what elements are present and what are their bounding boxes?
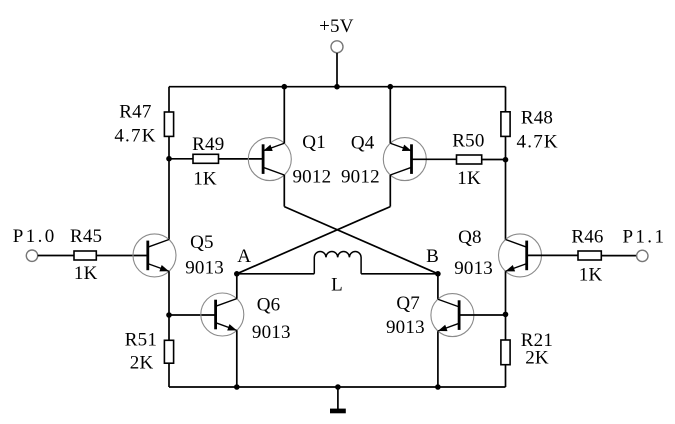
svg-text:9012: 9012 [341, 166, 380, 187]
svg-text:9013: 9013 [185, 258, 224, 279]
label 9012 of Q1 [292, 166, 331, 187]
label R21 [521, 330, 553, 351]
label 1K of R50 [457, 168, 481, 189]
wire node B to Q7 collector [437, 274, 439, 299]
node junction Q7 emitter / bottom bus [435, 384, 441, 390]
label Q1 [302, 132, 326, 153]
label P1.0 [13, 226, 57, 247]
svg-text:P1.0: P1.0 [13, 226, 57, 247]
wire R51 to bottom bus [168, 363, 170, 387]
wire R49 to Q1 base [219, 158, 264, 160]
transistor Q7 (NPN 9013) [431, 294, 474, 337]
transistor Q5 (NPN 9013) [133, 234, 176, 277]
wire inductor to node B [361, 273, 438, 275]
wire bottom bus [169, 386, 506, 388]
svg-text:R50: R50 [452, 131, 484, 152]
wire diagonal Q4 collector to node A [237, 207, 390, 274]
wire right rail upper [505, 87, 507, 112]
wire diagonal Q1 collector to node B [284, 207, 438, 274]
wire R46 to P1.1 [601, 255, 636, 257]
svg-text:9012: 9012 [292, 166, 331, 187]
svg-text:4.7K: 4.7K [114, 126, 156, 147]
node junction R48/R50 [503, 157, 509, 163]
svg-text:P1.1: P1.1 [622, 226, 666, 247]
resistor R48 [501, 112, 510, 137]
svg-text:+5V: +5V [319, 16, 354, 37]
wire Q1 collector stub [283, 175, 285, 207]
label 9013 of Q8 [454, 258, 493, 279]
transistor Q1 (PNP 9012) [248, 138, 291, 181]
wire left rail upper [168, 87, 170, 112]
label 2K of R51 [130, 353, 154, 374]
svg-text:Q6: Q6 [257, 294, 281, 315]
svg-text:Q8: Q8 [458, 227, 482, 248]
node junction ground / bottom bus [335, 384, 341, 390]
svg-text:1K: 1K [457, 168, 481, 189]
resistor R21 [501, 340, 510, 365]
resistor R50 [457, 155, 482, 164]
wire Q5 emitter rail down [168, 271, 170, 315]
svg-text:2K: 2K [525, 348, 549, 369]
label 9012 of Q4 [341, 166, 380, 187]
label L [331, 275, 343, 296]
label 9013 of Q6 [252, 322, 291, 343]
power terminal +5V [331, 41, 343, 53]
svg-text:Q7: Q7 [396, 293, 420, 314]
node junction Q5 emitter / Q6 base / R51 [166, 312, 172, 318]
ground [330, 387, 346, 413]
wire right rail to Q8 collector [505, 160, 507, 240]
wire Q1 emitter to top bus [283, 87, 285, 144]
label 9013 of Q7 [386, 317, 425, 338]
node junction top bus / +5V [334, 84, 340, 90]
label Q8 [458, 227, 482, 248]
node junction R47/R49 [166, 156, 172, 162]
transistor Q8 (NPN 9013) [499, 234, 542, 277]
label +5V [319, 16, 354, 37]
svg-text:R49: R49 [192, 134, 224, 155]
transistor Q4 (PNP 9012) [383, 138, 426, 181]
label node A [237, 246, 251, 267]
svg-text:9013: 9013 [386, 317, 425, 338]
svg-text:R46: R46 [571, 226, 603, 247]
label R47 [119, 101, 151, 122]
svg-text:A: A [237, 246, 251, 267]
label R50 [452, 131, 484, 152]
resistor R46 [578, 251, 601, 260]
label R48 [521, 108, 553, 129]
svg-text:B: B [426, 246, 439, 267]
node junction top bus / Q4 emitter [388, 84, 394, 90]
svg-text:L: L [331, 275, 343, 296]
svg-text:1K: 1K [74, 263, 98, 284]
wire node A to inductor [237, 273, 314, 275]
input terminal P1.0 [26, 250, 37, 261]
label 4.7K of R48 [517, 132, 559, 153]
wire R45 to Q5 base [96, 255, 148, 257]
svg-text:2K: 2K [130, 353, 154, 374]
wire Q7 base lead [459, 314, 505, 316]
label Q5 [190, 232, 214, 253]
node junction Q6 emitter / bottom bus [234, 384, 240, 390]
label R46 [571, 226, 603, 247]
svg-text:Q5: Q5 [190, 232, 214, 253]
node B junction [435, 271, 441, 277]
node junction Q8 emitter / Q7 base / R21 [503, 312, 509, 318]
wire R50 to right rail [482, 159, 506, 161]
wire Q4 emitter to top bus [389, 87, 391, 144]
wire Q4 base to R50 [412, 158, 457, 160]
wire R21 to bottom bus [505, 365, 507, 387]
label Q4 [351, 133, 375, 154]
label node B [426, 246, 439, 267]
label 1K of R46 [579, 264, 603, 285]
inductor L [314, 252, 361, 274]
wire +5V stem [336, 53, 338, 87]
wire Q7 emitter to bottom bus [437, 331, 439, 387]
resistor R49 [193, 154, 219, 163]
resistor R51 [164, 340, 173, 363]
svg-text:R45: R45 [70, 226, 102, 247]
label 1K of R49 [193, 168, 217, 189]
wire R49 left lead [169, 158, 193, 160]
svg-text:R48: R48 [521, 108, 553, 129]
wire Q6 emitter to bottom bus [236, 330, 238, 387]
node junction top bus / Q1 emitter [282, 84, 288, 90]
resistor R45 [74, 251, 96, 260]
transistor Q6 (NPN 9013) [201, 293, 244, 336]
svg-text:Q1: Q1 [302, 132, 326, 153]
label 1K of R45 [74, 263, 98, 284]
svg-text:R51: R51 [125, 329, 157, 350]
label 9013 of Q5 [185, 258, 224, 279]
wire P1.0 to R45 [38, 255, 74, 257]
wire top supply bus [169, 86, 506, 88]
label Q7 [396, 293, 420, 314]
wire node A to Q6 collector [236, 274, 238, 299]
svg-text:1K: 1K [193, 168, 217, 189]
resistor R47 [164, 112, 173, 136]
label Q6 [257, 294, 281, 315]
label 2K of R21 [525, 348, 549, 369]
label R51 [125, 329, 157, 350]
svg-text:9013: 9013 [252, 322, 291, 343]
svg-text:R47: R47 [119, 101, 151, 122]
input terminal P1.1 [637, 250, 648, 261]
label P1.1 [622, 226, 666, 247]
svg-text:1K: 1K [579, 264, 603, 285]
wire Q6 base lead [169, 314, 216, 316]
wire R47 to R49 node [168, 136, 170, 158]
label R45 [70, 226, 102, 247]
svg-text:4.7K: 4.7K [517, 132, 559, 153]
wire R48 to R50 node [505, 136, 507, 159]
label R49 [192, 134, 224, 155]
wire Q8 emitter rail down [505, 271, 507, 314]
wire Q8 base to R46 [527, 254, 578, 256]
wire R21 upper lead [505, 314, 507, 340]
wire R51 upper lead [168, 315, 170, 340]
svg-text:9013: 9013 [454, 258, 493, 279]
wire left rail to Q5 collector [168, 159, 170, 240]
svg-text:Q4: Q4 [351, 133, 375, 154]
label 4.7K [114, 126, 156, 147]
node A junction [234, 271, 240, 277]
wire Q4 collector stub [389, 175, 391, 207]
